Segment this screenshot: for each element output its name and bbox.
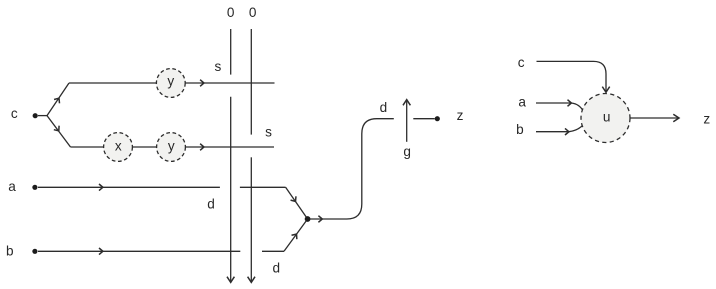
svg-text:d: d [380, 100, 388, 115]
svg-text:z: z [703, 111, 710, 126]
svg-text:d: d [273, 260, 281, 275]
svg-text:y: y [167, 74, 174, 89]
svg-text:b: b [516, 122, 524, 137]
svg-text:x: x [115, 138, 122, 153]
svg-text:d: d [207, 197, 215, 212]
svg-text:g: g [403, 144, 411, 159]
svg-text:c: c [518, 55, 525, 70]
svg-text:s: s [215, 59, 222, 74]
svg-text:0: 0 [249, 5, 257, 20]
svg-text:a: a [518, 95, 526, 110]
svg-text:y: y [168, 138, 175, 153]
svg-text:0: 0 [227, 5, 235, 20]
svg-text:u: u [603, 110, 611, 125]
svg-text:a: a [8, 179, 16, 194]
svg-text:b: b [6, 243, 14, 258]
svg-text:z: z [457, 108, 464, 123]
svg-text:s: s [265, 125, 272, 140]
svg-text:c: c [11, 106, 18, 121]
